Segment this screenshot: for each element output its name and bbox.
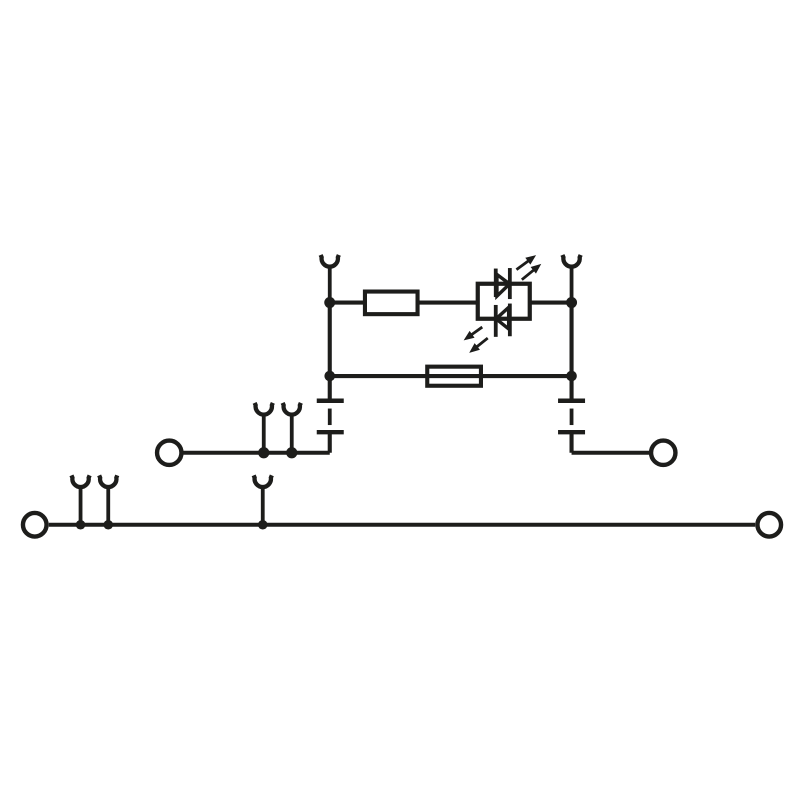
wire: middle horizontal line (through fuse) — [330, 374, 572, 378]
LED U1: light arrow upper-right #2 — [522, 265, 540, 280]
LED U1: right rail lower segment (anode bar of bottom LED) — [508, 304, 512, 337]
disconnect point right: upper bar — [558, 399, 585, 403]
LED U1: top diode triangle pointing right — [497, 275, 510, 297]
wire: left disconnect to lower-left line — [328, 432, 332, 453]
wire: resistor to LED box — [418, 300, 478, 304]
test tap fork: bottom line #2 — [99, 475, 117, 524]
LED U1: bottom diode triangle pointing left — [496, 307, 509, 329]
LED U1: left rail upper segment (anode bar of top LED) — [494, 269, 498, 298]
test tap fork: bottom line #3 — [254, 475, 272, 524]
junction dot: bottom line tap 1 — [76, 520, 86, 530]
wire: top loop, node to resistor — [330, 300, 367, 304]
test tap fork: bottom line #1 — [71, 475, 89, 524]
junction dot: lower-left line tap 2 — [286, 447, 297, 458]
junction dot: top-right node — [566, 297, 577, 308]
disconnect point left: upper bar — [317, 399, 344, 403]
terminal circle: middle-left conductor entry — [157, 441, 181, 465]
junction dot: lower-left line tap 1 — [258, 447, 269, 458]
test tap fork: top-right — [562, 255, 580, 303]
disconnect point right: lower bar — [558, 430, 585, 434]
test tap fork: middle line #1 — [255, 403, 273, 453]
junction dot: bottom line tap 3 — [258, 520, 268, 530]
wire: left vertical trunk from top node to disconnect — [328, 303, 332, 401]
wire: right vertical trunk from top node to disconnect — [569, 303, 573, 401]
terminal circle: bottom-left conductor entry — [23, 513, 47, 537]
terminal circle: middle-right conductor entry — [651, 441, 675, 465]
wire: middle-left horizontal line — [183, 451, 329, 455]
wire: middle-right horizontal line — [572, 451, 650, 455]
test tap fork: middle line #2 — [283, 403, 301, 453]
LED U1: left rail lower segment (cathode bar of bottom LED) — [494, 305, 498, 337]
wire: right disconnect to lower-right line — [569, 432, 573, 453]
resistor R1 — [365, 292, 418, 315]
test tap fork: top-left — [321, 255, 339, 303]
LED U1: light arrow lower-left #1 — [465, 327, 483, 340]
wire: LED box to right node — [530, 300, 572, 304]
junction dot: bottom line tap 2 — [103, 520, 113, 530]
disconnect point right: middle link dash — [570, 409, 574, 426]
LED U1: light arrow lower-left #2 — [470, 338, 488, 352]
LED U1: right rail upper segment (cathode bar of top LED) — [508, 268, 512, 299]
LED U1: light arrow upper-right #1 — [516, 256, 535, 270]
disconnect point left: lower bar — [317, 430, 344, 434]
junction dot: middle-right node — [566, 371, 577, 382]
disconnect point left: middle link dash — [328, 409, 332, 426]
wire: bottom horizontal line — [49, 523, 756, 527]
fuse F1 — [427, 367, 481, 386]
terminal circle: bottom-right conductor entry — [757, 513, 781, 537]
LED indicator U1: outline box — [478, 284, 530, 319]
junction dot: middle-left node — [324, 371, 335, 382]
junction dot: top-left node — [324, 297, 335, 308]
